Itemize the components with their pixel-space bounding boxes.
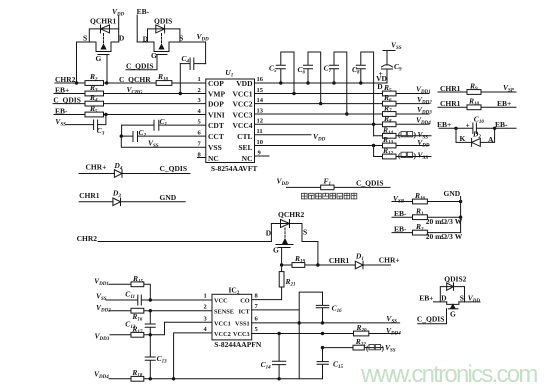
svg-text:QDIS2: QDIS2 [444, 274, 466, 283]
svg-text:GND: GND [160, 193, 177, 202]
net VDD3 row / resistor R17 to pin3 [95, 322, 213, 342]
junction C10 right [493, 127, 496, 130]
junction gate node [280, 263, 283, 266]
capacitor C5 [269, 52, 296, 95]
capacitor C13 [145, 335, 167, 379]
resistor R2 20mOhm/3W [413, 222, 463, 241]
svg-text:D: D [377, 82, 383, 91]
svg-text:CO: CO [240, 298, 250, 305]
capacitor C2 (on CCT row) [121, 128, 206, 142]
svg-text:A: A [488, 135, 494, 144]
svg-text:K: K [460, 134, 466, 143]
capacitor C16 (on vertical B) [316, 292, 342, 323]
wire CDT branch down [121, 125, 123, 136]
junction (QCHR1 source on row1) [75, 81, 78, 84]
svg-text:QDIS: QDIS [154, 16, 172, 25]
label: normally-open thermal fuse (Chinese) [302, 193, 357, 199]
transistor QDIS2 [434, 274, 481, 318]
svg-text:13: 13 [257, 107, 264, 114]
wire EB- shunt row 2 [392, 224, 461, 233]
svg-text:1: 1 [204, 293, 207, 300]
svg-text:10: 10 [257, 139, 264, 146]
svg-text:S-8244AAPFN: S-8244AAPFN [214, 340, 262, 349]
svg-text:SENSE: SENSE [214, 308, 234, 315]
op-amp U1 S-8254AAVFT [206, 68, 258, 173]
wire row3 to pin3 [53, 103, 206, 105]
wire R22 row (not soldered) to VSS [321, 337, 396, 354]
svg-text:G: G [151, 51, 157, 60]
resistor R12 (not soldered) [382, 146, 428, 161]
svg-text:www.cntronics.com: www.cntronics.com [360, 361, 537, 388]
junction GND row2 [459, 216, 462, 219]
svg-text:NC: NC [208, 154, 219, 163]
svg-text:COP: COP [208, 79, 224, 88]
svg-text:C_QDIS: C_QDIS [160, 164, 188, 173]
wire QCHR1 gate to C_QCHR node [106, 55, 108, 84]
svg-text:SEL: SEL [238, 143, 252, 152]
svg-text:CTL: CTL [237, 132, 252, 141]
resistor R10 (right) [467, 97, 481, 110]
capacitor C12 (between VDD2 and VDD3 nodes) [125, 311, 155, 335]
svg-text:EB-: EB- [137, 7, 150, 16]
resistor R9 [467, 81, 481, 94]
capacitor C1 (on CDT row) [122, 117, 206, 130]
transistor QCHR2 [266, 210, 307, 255]
resistor R14 (not soldered) [382, 125, 428, 140]
junction (C1/C2 common) [120, 134, 123, 137]
pin 8 NC stub [198, 151, 206, 158]
net C_QDIS stub at QDIS gate [126, 55, 157, 71]
svg-text:NC: NC [242, 154, 253, 163]
svg-text:CHR2: CHR2 [77, 234, 98, 243]
wire pin12 row [255, 123, 430, 125]
svg-text:D: D [143, 34, 149, 43]
wire QCHR2 gate down [281, 248, 283, 266]
wire VSS to GND row [392, 194, 461, 205]
wire row1 CHR2 to pin1 [55, 82, 206, 84]
svg-text:VSS: VSS [208, 143, 222, 152]
resistor R7 (ladder) [383, 104, 397, 117]
resistor R5 (ladder) [383, 83, 397, 96]
svg-text:C_QDIS: C_QDIS [53, 95, 81, 104]
svg-text:EB-: EB- [394, 224, 407, 233]
capacitor C6 [298, 52, 323, 105]
power VDD (above QCHR1 drain) [112, 7, 125, 29]
diode D2 loop (K/A) [456, 128, 495, 146]
node CHR1 / wire to VSP [438, 83, 516, 94]
svg-text:C_QCHR: C_QCHR [119, 75, 151, 84]
capacitor C15 (on vertical B, lower) [317, 348, 344, 379]
svg-text:15: 15 [257, 87, 264, 94]
svg-text:VCC: VCC [214, 298, 228, 305]
wire VDD bus (pin16 row) [255, 82, 387, 84]
junction C10 left [454, 127, 457, 130]
wire pin6 VSS1 row to VSS [252, 314, 400, 325]
net VDD2 row / resistor R16 to pin2 [96, 303, 212, 322]
svg-text:16: 16 [257, 76, 264, 83]
svg-text:VCC2: VCC2 [214, 331, 231, 338]
node CHR2 (middle) [77, 234, 272, 243]
svg-text:VCC3: VCC3 [233, 110, 253, 119]
transistor QDIS [137, 16, 183, 60]
resistor R6 (ladder) [383, 93, 397, 106]
svg-text:CCT: CCT [208, 132, 224, 141]
net C_QDIS stub (QDIS2 gate) [417, 309, 447, 324]
wire CHR1 to D1 to CHR+ [318, 251, 400, 269]
resistor R21 (vertical) [279, 265, 295, 300]
svg-text:11: 11 [257, 128, 263, 135]
svg-text:2: 2 [198, 87, 201, 94]
wire QCHR2 source down [302, 242, 318, 266]
svg-text:VCC4: VCC4 [233, 121, 253, 130]
resistor R19 [282, 254, 318, 267]
wire QCHR1 source to CHR2 row [76, 42, 78, 83]
svg-text:EB+: EB+ [419, 294, 433, 303]
svg-text:S-8254AAVFT: S-8254AAVFT [211, 164, 258, 173]
resistor R2 [85, 72, 104, 85]
net VDD1 row / resistor R15 [94, 274, 150, 300]
wire common to VSS row [121, 136, 206, 147]
svg-text:EB-: EB- [394, 209, 407, 218]
svg-text:S: S [303, 227, 307, 236]
resistor R3 [85, 83, 104, 96]
junction (C4 branch on row2) [179, 92, 182, 95]
svg-text:C_QDIS: C_QDIS [417, 315, 445, 324]
svg-text:QCHR2: QCHR2 [278, 210, 305, 219]
resistor R5 [85, 104, 104, 117]
svg-text:20 mΩ/3 W: 20 mΩ/3 W [426, 232, 463, 241]
svg-text:EB+: EB+ [497, 99, 511, 108]
resistor R13 [382, 135, 396, 148]
svg-text:G: G [450, 310, 456, 319]
svg-text:D: D [266, 228, 272, 237]
resistor R16 (VSS-GND) [413, 191, 428, 204]
svg-text:VCC2: VCC2 [233, 99, 253, 108]
svg-text:VCC3: VCC3 [233, 331, 250, 338]
junction GND row1 [459, 200, 462, 203]
node CHR+ / diode D4 row to C_QDIS [79, 161, 190, 178]
wire QDIS source to C4 [180, 42, 206, 64]
capacitor C3 [66, 115, 106, 137]
svg-text:+: + [466, 121, 470, 130]
power VDD / fuse F1 row to C_QDIS [277, 176, 391, 189]
resistor R10 [156, 72, 172, 85]
svg-text:VINI: VINI [208, 110, 225, 119]
svg-text:EB-: EB- [495, 120, 508, 129]
wire R21 to IC2 pin8 [252, 299, 282, 301]
svg-text:VCC1: VCC1 [214, 321, 231, 328]
svg-text:14: 14 [257, 97, 264, 104]
wire pin13 row [255, 113, 430, 115]
svg-text:12: 12 [257, 118, 264, 125]
capacitor C7 [324, 52, 349, 116]
node CHR1 / wire to EB+ [438, 99, 516, 108]
svg-text:CHR+: CHR+ [379, 255, 400, 264]
svg-text:VDD: VDD [236, 79, 253, 88]
capacitor C14 [261, 334, 286, 379]
svg-text:VMP: VMP [208, 89, 225, 98]
net VDD4 bottom bus / resistor R18 [94, 368, 323, 381]
wire R14 row (from C8 leg) [374, 135, 431, 137]
svg-text:CHR+: CHR+ [86, 162, 107, 171]
svg-text:CHR1: CHR1 [329, 256, 350, 265]
wire pin14 row [255, 103, 430, 105]
wire pin4 down to bottom bus [174, 333, 212, 379]
svg-text:D: D [441, 294, 447, 303]
wire EB- shunt row 1 [392, 209, 461, 218]
wire row4 EB- to pin4 [54, 114, 206, 116]
wire row2 EB+ to pin2 [54, 93, 206, 95]
svg-text:C_QDIS: C_QDIS [126, 61, 154, 70]
power VSS / capacitor C11 row to pin1 [96, 290, 212, 305]
wire pin7 ICT up-over (vertical A) [252, 292, 323, 379]
junction + branch pin10 to R12 row [372, 144, 375, 147]
junction source node [316, 263, 319, 266]
node CHR1 / diode D3 row to GND [79, 189, 185, 206]
svg-text:CHR1: CHR1 [79, 191, 100, 200]
svg-text:1: 1 [198, 76, 201, 83]
pin 9 NC stub [255, 149, 270, 156]
capacitor C8 [352, 52, 375, 136]
svg-text:20 mΩ/3 W: 20 mΩ/3 W [426, 217, 463, 226]
svg-text:G: G [96, 54, 102, 63]
wire pin15 row [255, 93, 430, 95]
svg-text:GND: GND [444, 189, 461, 198]
svg-text:ICT: ICT [238, 308, 250, 315]
resistor R8 (ladder) [383, 114, 397, 127]
svg-text:DOP: DOP [208, 99, 224, 108]
svg-text:S: S [460, 294, 464, 303]
svg-text:2: 2 [204, 303, 207, 310]
node EB- (above QDIS drain) [137, 7, 150, 42]
resistor R4 [85, 93, 104, 106]
resistor R1 20mOhm/3W [413, 207, 463, 226]
wire pin5 VCC3 row / resistor R20 to VDD4 [252, 323, 402, 336]
svg-text:QCHR1: QCHR1 [90, 17, 117, 26]
capacitor C4 [180, 54, 205, 94]
capacitor C9 polarized [379, 51, 403, 84]
svg-text:VSS1: VSS1 [235, 321, 250, 328]
junction (C3 branch on row4) [104, 113, 107, 116]
node EB+ / capacitor C10 row [437, 115, 516, 134]
wire pin11 CTL row to VDD [255, 134, 312, 136]
transistor QCHR1 [77, 17, 125, 64]
svg-text:CDT: CDT [208, 121, 224, 130]
power VSS (top right terminal) [383, 41, 402, 52]
svg-text:S: S [179, 34, 183, 43]
wire pin10 SEL row [255, 145, 430, 147]
svg-text:VCC1: VCC1 [233, 89, 253, 98]
op-amp IC2 S-8244AAPFN [212, 286, 262, 350]
junction (QCHR1 gate on row1) [105, 81, 108, 84]
ground GND (right block) [444, 189, 461, 233]
svg-text:G: G [273, 245, 279, 254]
svg-text:D: D [119, 33, 125, 42]
svg-text:C_QDIS: C_QDIS [356, 178, 384, 187]
svg-text:S: S [83, 33, 87, 42]
